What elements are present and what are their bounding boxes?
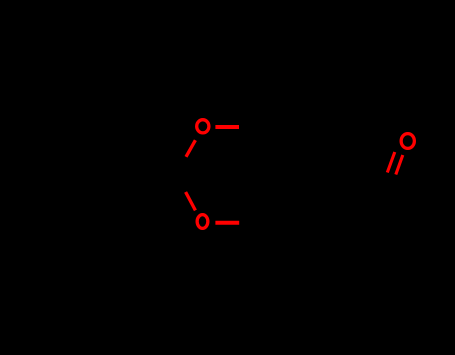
wire C=O double bond stroke 1 xyxy=(387,152,395,173)
oxygen O1 (top red letter O of acetal) xyxy=(197,120,209,133)
wire O3-CH3 horizontal red bond xyxy=(215,221,239,225)
oxygen O4 (aldehyde red letter O) xyxy=(401,134,414,149)
oxygen O3 (bottom red letter O of acetal) xyxy=(197,215,208,229)
wire O1-CH3 horizontal red bond xyxy=(215,125,239,129)
wire C2-O3 red half-bond xyxy=(186,192,196,210)
wire C2-O1 red half-bond xyxy=(186,140,195,157)
wire C=O double bond stroke 2 xyxy=(396,155,403,175)
